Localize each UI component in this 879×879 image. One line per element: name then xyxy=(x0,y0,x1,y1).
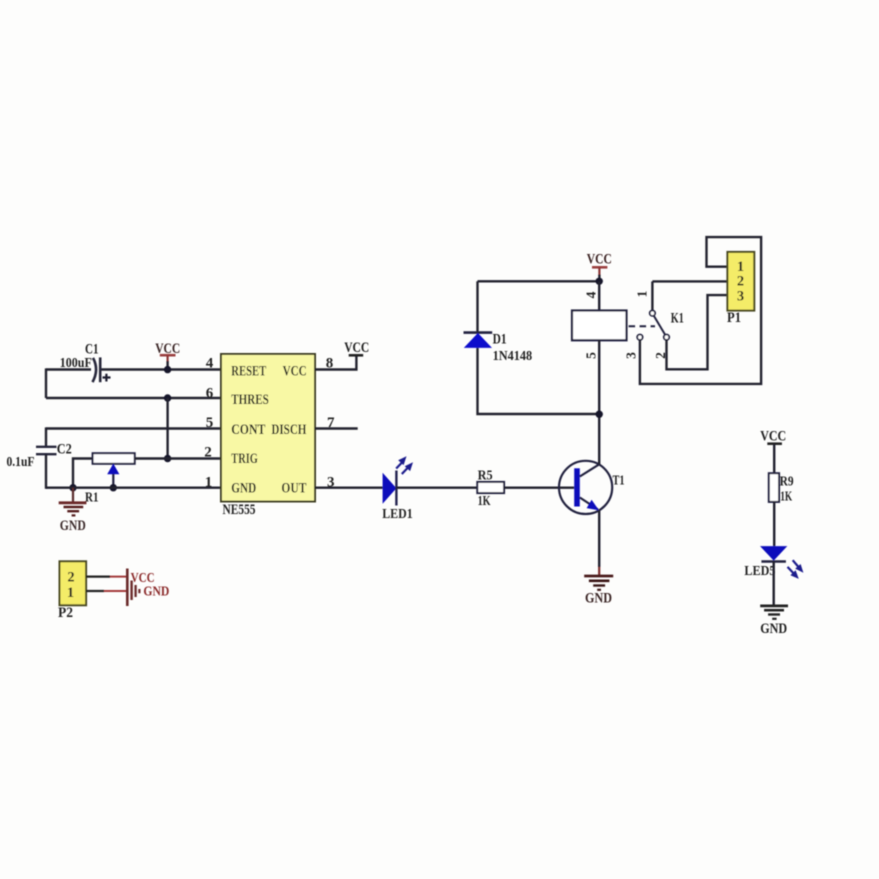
svg-text:6: 6 xyxy=(206,386,214,402)
diode D1 1N4148 xyxy=(464,331,493,334)
switch K1 contact 1 xyxy=(650,311,655,316)
svg-text:R5: R5 xyxy=(478,468,493,483)
svg-text:NE555: NE555 xyxy=(223,502,256,518)
svg-text:4: 4 xyxy=(583,291,598,298)
wire D1 vertical bottom xyxy=(478,348,600,414)
wire contact2 to P1 pin3 xyxy=(667,295,728,369)
svg-text:1: 1 xyxy=(67,585,74,601)
wire pin4 line left segment xyxy=(46,368,91,370)
wire R5 to T1 base xyxy=(504,487,574,489)
svg-text:GND: GND xyxy=(585,591,612,607)
resistor R9 xyxy=(769,473,779,502)
switch K1 common wire xyxy=(652,280,727,282)
svg-text:5: 5 xyxy=(206,415,214,431)
power VCC P2 (sideways) xyxy=(126,569,129,607)
svg-text:GND: GND xyxy=(60,518,86,534)
wire T1 collector up xyxy=(598,414,600,464)
svg-text:P1: P1 xyxy=(727,310,741,326)
svg-text:1N4148: 1N4148 xyxy=(493,349,532,364)
wire vertical THRES to TRIG xyxy=(166,398,168,459)
wire contact3 loop to P1 pin1 xyxy=(640,237,761,384)
svg-text:D1: D1 xyxy=(493,332,507,348)
wire relay coil top lead xyxy=(598,281,600,310)
svg-text:VCC: VCC xyxy=(283,364,307,380)
svg-text:3: 3 xyxy=(737,289,744,305)
svg-text:P2: P2 xyxy=(58,605,73,621)
svg-text:0.1uF: 0.1uF xyxy=(7,454,35,469)
switch K1 contact 2 xyxy=(664,335,669,340)
svg-text:4: 4 xyxy=(206,356,214,372)
power VCC top-left xyxy=(160,354,176,357)
ground GND below T1 xyxy=(598,567,600,576)
switch K1 arm xyxy=(654,316,666,335)
wire LED5 to GND xyxy=(773,562,775,606)
op-amp U1 NE555 body xyxy=(221,354,315,502)
connector P1 xyxy=(727,252,754,311)
wire relay top horizontal xyxy=(478,280,600,282)
LED LED5 xyxy=(760,546,787,561)
wire left vertical below C2 xyxy=(45,454,47,489)
svg-text:VCC: VCC xyxy=(344,340,369,356)
wire relay coil bottom lead xyxy=(598,340,600,414)
wire pin4 line right segment xyxy=(101,368,221,370)
capacitor C2 xyxy=(36,446,57,448)
connector P2 xyxy=(60,561,87,605)
svg-text:2: 2 xyxy=(204,445,212,461)
ground GND P2 (sideways) xyxy=(130,581,132,601)
wire dashed relay to switch xyxy=(629,325,655,327)
wire P2 pin2 to VCC xyxy=(86,575,110,577)
svg-text:GND: GND xyxy=(231,481,256,497)
switch K1 contact 3 xyxy=(637,335,642,340)
svg-text:TRIG: TRIG xyxy=(231,451,257,467)
node junction pot-wiper xyxy=(110,484,117,491)
node junction TRIG xyxy=(164,455,171,462)
svg-text:T1: T1 xyxy=(613,473,625,488)
svg-text:3: 3 xyxy=(624,352,639,359)
node junction pot-left xyxy=(69,484,76,491)
svg-text:RESET: RESET xyxy=(231,364,266,380)
wire R9 to LED5 xyxy=(773,502,775,546)
wire D1 vertical top xyxy=(476,281,478,332)
node junction collector xyxy=(596,411,603,418)
svg-text:K1: K1 xyxy=(671,310,684,326)
node junction relay VCC xyxy=(596,278,603,285)
wire LED1 to R5 xyxy=(396,487,477,489)
wire pin7 stub xyxy=(315,427,358,429)
svg-text:CONT: CONT xyxy=(231,422,265,438)
svg-text:1: 1 xyxy=(635,290,650,297)
svg-text:1: 1 xyxy=(737,259,744,275)
svg-text:2: 2 xyxy=(67,569,74,585)
svg-text:GND: GND xyxy=(760,621,787,637)
node junction THRES xyxy=(164,394,171,401)
svg-text:OUT: OUT xyxy=(281,481,306,497)
wire pin1 GND line xyxy=(46,487,221,489)
capacitor C1 xyxy=(93,358,97,382)
svg-text:THRES: THRES xyxy=(231,392,268,408)
svg-text:R9: R9 xyxy=(780,475,794,490)
wire pin6 THRES line xyxy=(46,397,221,399)
wire left vertical pin4 to pin6 xyxy=(45,368,47,398)
relay K1 coil xyxy=(572,311,627,341)
node junction pin4/VCC xyxy=(164,366,171,373)
svg-text:R1: R1 xyxy=(85,490,99,505)
svg-text:2: 2 xyxy=(737,274,744,290)
svg-text:DISCH: DISCH xyxy=(271,422,307,438)
wire T1 emitter down xyxy=(598,510,600,567)
wire pin5 CONT line xyxy=(46,427,221,429)
svg-text:C2: C2 xyxy=(57,442,72,458)
wire pin8 to VCC xyxy=(315,355,356,369)
svg-text:LED5: LED5 xyxy=(744,564,775,579)
wire VCC to R9 xyxy=(773,444,775,474)
svg-text:VCC: VCC xyxy=(155,341,180,357)
ground GND right xyxy=(760,605,788,608)
power VCC pin8 xyxy=(349,354,364,357)
resistor R5 xyxy=(477,482,504,493)
ground GND left xyxy=(72,488,74,503)
wire left vertical above C2 xyxy=(45,427,47,446)
potentiometer R1 xyxy=(73,459,93,488)
transistor T1 xyxy=(559,461,612,514)
LED LED1 xyxy=(383,473,397,504)
svg-text:1: 1 xyxy=(205,475,213,491)
svg-text:1K: 1K xyxy=(478,494,491,509)
svg-text:VCC: VCC xyxy=(587,251,612,267)
svg-text:GND: GND xyxy=(143,584,169,599)
wire pin2 TRIG line xyxy=(135,457,221,459)
svg-text:VCC: VCC xyxy=(760,428,786,444)
svg-text:1K: 1K xyxy=(780,490,792,505)
wire P2 pin1 to GND xyxy=(86,590,104,592)
wire pin3 OUT to LED1 xyxy=(315,487,383,489)
svg-text:LED1: LED1 xyxy=(382,507,413,522)
svg-text:100uF: 100uF xyxy=(60,355,92,370)
svg-text:5: 5 xyxy=(583,352,598,359)
